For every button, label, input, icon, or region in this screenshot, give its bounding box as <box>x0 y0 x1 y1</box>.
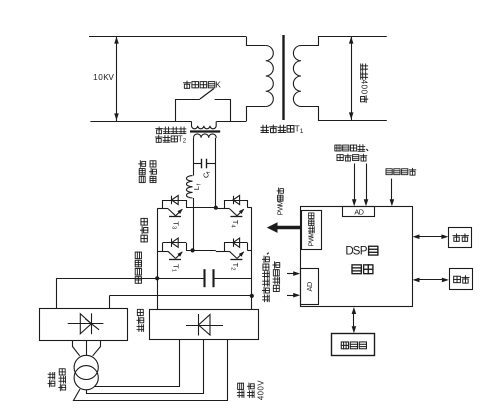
rectifier box right <box>150 310 259 340</box>
arrow grid sense 2 <box>364 164 369 207</box>
wire Cf left <box>193 163 202 165</box>
label DC bus current/voltage sense <box>262 253 279 302</box>
IGBT T3 with antiparallel diode (upper left) <box>157 195 186 229</box>
arrow DC bus sense 1 <box>287 271 300 276</box>
transformer T2 primary winding <box>192 122 217 129</box>
wire inverter lower rail <box>186 250 216 252</box>
label phase detection <box>386 168 416 175</box>
capacitor storage (DC link) <box>205 269 214 287</box>
wire right DC rail <box>251 208 253 310</box>
label AD top <box>354 207 364 216</box>
svg-text:400V: 400V <box>257 380 266 401</box>
label PWM generator <box>308 213 315 247</box>
label sine-wave filter <box>139 161 157 183</box>
wire 10KV bottom bus left segment <box>90 121 191 123</box>
svg-text:10KV: 10KV <box>93 73 114 82</box>
arrow phase detection <box>390 179 395 207</box>
label display <box>453 234 468 241</box>
arrow grid sense 1 <box>352 164 357 207</box>
DSP controller box <box>301 207 413 307</box>
wire bypass top right segment <box>215 99 231 101</box>
wire bypass left riser <box>175 99 177 121</box>
label Cf <box>202 171 212 178</box>
transformer step-up circle 2 <box>74 366 98 390</box>
wire 3-phase line A <box>95 340 180 387</box>
transformer T1 secondary connection bottom <box>301 107 387 121</box>
svg-text:T3: T3 <box>170 221 180 229</box>
transformer T2 core bar <box>190 130 220 132</box>
node junction Lf-lower rail <box>191 248 195 252</box>
transformer T1 primary winding <box>266 46 274 107</box>
wire T4 to right rail <box>247 207 251 209</box>
wire bypass top left segment <box>176 99 200 101</box>
transformer T1 core bar <box>282 35 284 120</box>
wire left rectifier output leads <box>73 340 101 356</box>
label host computer <box>341 342 366 349</box>
label rectifier <box>137 309 144 331</box>
transformer T1 secondary connection top <box>301 37 387 46</box>
transformer T1 primary connection bottom <box>247 107 266 122</box>
10KV span arrow <box>114 36 119 121</box>
svg-text:AD: AD <box>305 282 314 292</box>
IGBT T1 with antiparallel diode (lower left) <box>157 238 186 272</box>
wire 10KV top bus <box>89 36 246 38</box>
label T2 step-up compensation transformer <box>156 127 186 134</box>
label bypass switch K <box>184 80 222 89</box>
svg-text:T1: T1 <box>170 264 180 272</box>
thyristor in left rectifier <box>68 313 104 334</box>
label Lf <box>192 183 202 190</box>
svg-text:PWM: PWM <box>276 200 285 215</box>
arrow DSP-keyboard <box>413 278 449 283</box>
svg-text:T4: T4 <box>230 220 240 229</box>
label three-phase AC 400V <box>237 380 265 401</box>
label AD left <box>305 282 314 292</box>
host computer box <box>332 334 375 356</box>
wire T2 secondary right lead <box>215 138 217 208</box>
label grid-side voltage/current sense <box>335 145 368 152</box>
wire Lf to left leg midpoint <box>193 198 195 250</box>
wire 3-phase line C <box>74 340 228 401</box>
wire Cf right <box>206 163 216 165</box>
wire bypass right riser <box>230 99 232 121</box>
label capacitor energy storage <box>135 252 141 283</box>
svg-text:DSP: DSP <box>345 244 367 257</box>
wire lower line drop to rectifier <box>109 296 111 309</box>
wire inverter upper rail <box>186 207 216 209</box>
arrow DSP-host <box>352 307 357 333</box>
wire lower DC link line <box>109 295 252 297</box>
inductor Lf <box>186 176 192 198</box>
transformer T1 primary connection top <box>247 37 266 46</box>
transformer step-up circle 1 <box>74 355 98 379</box>
display box <box>449 228 472 248</box>
svg-text:PWM: PWM <box>309 232 316 247</box>
IGBT T2 with antiparallel diode (lower right) <box>216 238 248 270</box>
svg-text:AD: AD <box>354 207 364 216</box>
arrow DC bus sense 2 <box>287 293 300 298</box>
transformer T1 secondary winding <box>293 46 301 107</box>
svg-text:Lf: Lf <box>192 183 202 190</box>
label DSP controller <box>345 244 377 257</box>
label inverter <box>140 218 147 242</box>
wire left DC rail <box>157 209 159 310</box>
AD box left <box>301 269 319 305</box>
keyboard box <box>450 269 473 290</box>
wire T2 secondary left lead <box>193 138 195 176</box>
label low-voltage 400V <box>360 64 369 103</box>
node junction right rail-lower line <box>250 294 254 298</box>
svg-text:T2: T2 <box>178 134 187 144</box>
svg-text:T1: T1 <box>294 124 303 135</box>
label step-up transformer <box>48 369 66 391</box>
PWM generator box <box>302 211 322 250</box>
switch K blade <box>200 89 214 99</box>
svg-text:T2: T2 <box>230 263 240 271</box>
svg-text:Cf: Cf <box>202 171 212 178</box>
wire 10KV bottom bus right segment <box>216 121 246 123</box>
IGBT T4 with antiparallel diode (upper right) <box>216 195 248 228</box>
capacitor Cf <box>202 159 207 169</box>
wire T2 to right rail <box>247 250 251 252</box>
label keyboard <box>454 276 469 283</box>
label 10KV <box>93 73 114 82</box>
wire capacitor rail drop to rectifier <box>56 278 58 308</box>
wire 3-phase line B <box>87 340 204 394</box>
transformer T2 secondary winding <box>194 134 217 138</box>
svg-text:K: K <box>215 80 221 89</box>
wire DC rail to storage capacitor left <box>56 278 204 280</box>
PWM pulse thick arrow <box>267 222 301 233</box>
label PWM pulse <box>276 188 285 216</box>
wire storage capacitor right <box>214 278 252 280</box>
AD box top <box>343 207 375 217</box>
LV 400V span arrow <box>349 36 354 120</box>
svg-text:400: 400 <box>360 79 369 94</box>
node junction left rail-capacitor rail <box>155 276 159 280</box>
node junction Cf-upper rail <box>214 206 218 210</box>
label main transformer T1 <box>261 124 304 135</box>
rectifier box left <box>40 309 128 341</box>
diode in right rectifier <box>186 314 223 336</box>
arrow DSP-display <box>413 234 449 239</box>
